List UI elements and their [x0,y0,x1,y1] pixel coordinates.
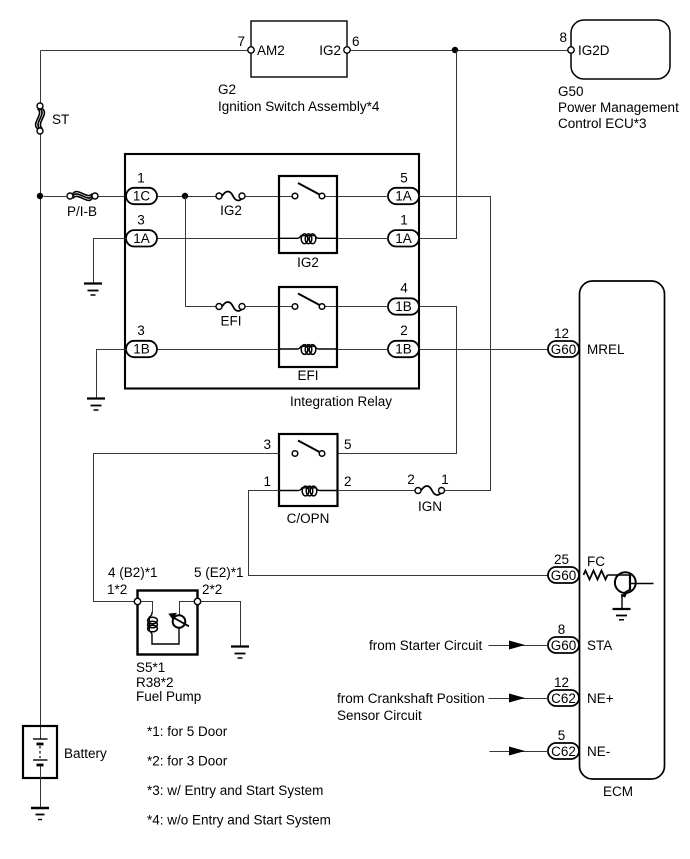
svg-text:S5*1: S5*1 [136,660,165,675]
connector G60 pin 8 STA [548,622,612,653]
connector G60 pin 12 MREL [548,326,625,357]
connector 1A pin 3 left [126,213,157,247]
wire 1B4 down to C/OPN pin5 [338,307,457,454]
svg-text:1B: 1B [133,342,150,357]
ground under 1B3 [87,399,105,411]
svg-text:G2: G2 [218,82,236,97]
wire 1C to IG2 fuse [158,196,217,198]
relay EFI [279,287,337,383]
wire EFI fuse to relay switch [246,306,293,308]
wire from starter circuit arrow [369,638,549,653]
svg-text:1A: 1A [133,231,150,246]
wire 1A3 to ground [94,239,127,284]
svg-text:IG2: IG2 [297,255,319,270]
svg-text:*4: w/o Entry and Start System: *4: w/o Entry and Start System [147,813,331,828]
svg-text:EFI: EFI [220,314,241,329]
svg-text:*3: w/ Entry and Start System: *3: w/ Entry and Start System [147,783,323,798]
fusible link ST [36,103,70,134]
connector 1B pin 3 left [126,323,157,357]
svg-text:1: 1 [441,472,449,487]
svg-text:1: 1 [400,213,408,228]
svg-text:1B: 1B [395,299,412,314]
connector C62 pin 12 NE+ [548,675,614,706]
ground under 1A3 [84,284,102,296]
svg-text:G60: G60 [551,568,577,583]
fuse IG2 [216,192,245,219]
battery [23,726,107,808]
svg-text:3: 3 [137,213,145,228]
svg-text:12: 12 [554,675,569,690]
svg-text:IG2: IG2 [319,43,341,58]
svg-text:Power Management: Power Management [558,100,679,115]
svg-text:8: 8 [559,30,567,45]
svg-text:Control ECU*3: Control ECU*3 [558,116,647,131]
notes [147,724,331,828]
connector 1B pin 2 right [388,323,419,357]
wire IG2 coil to 1A1 [338,238,389,240]
wire EFI coil to 1B2 [338,349,389,351]
svg-text:2: 2 [400,323,408,338]
wire left rail down to ST [40,51,42,104]
wire relay IG2 switch to 1A5 [326,196,389,198]
wire IG2 to IG2D [348,50,572,52]
svg-text:4 (B2)*1: 4 (B2)*1 [108,565,158,580]
ground under transistor [613,609,631,620]
svg-text:Integration Relay: Integration Relay [290,394,392,409]
relay C/OPN [263,434,351,526]
svg-text:6: 6 [352,34,360,49]
wire 1A1 up to top rail junction [420,51,457,239]
wire IG2 fuse to relay switch [246,196,293,198]
wire 1B3 to EFI coil [158,349,280,351]
svg-text:2*2: 2*2 [202,582,222,597]
svg-text:STA: STA [587,638,612,653]
svg-text:3: 3 [263,437,271,452]
svg-text:FC: FC [587,554,605,569]
wire top rail from battery column to AM2 [41,50,252,52]
ground under fuel pump [231,647,249,659]
svg-text:8: 8 [558,622,566,637]
svg-text:5: 5 [400,170,408,185]
resistor FC [584,571,608,580]
svg-text:3: 3 [137,323,145,338]
connector G60 pin 25 FC [548,552,605,583]
svg-text:NE-: NE- [587,744,610,759]
svg-text:Sensor Circuit: Sensor Circuit [337,708,422,723]
svg-text:from Starter Circuit: from Starter Circuit [369,638,483,653]
svg-text:1: 1 [263,474,271,489]
fuse EFI [216,302,245,329]
ignition switch assembly G2 [218,21,380,114]
svg-text:Battery: Battery [64,746,107,761]
wire relay EFI switch to 1B4 [326,306,389,308]
svg-text:C/OPN: C/OPN [287,511,330,526]
ECM box [580,281,665,799]
connector C62 pin 5 NE- [548,728,610,759]
wire FC resistor to transistor base [608,574,631,576]
svg-text:G60: G60 [551,342,577,357]
svg-text:ST: ST [52,112,69,127]
svg-text:1B: 1B [395,342,412,357]
svg-text:AM2: AM2 [257,43,285,58]
svg-text:from Crankshaft Position: from Crankshaft Position [337,691,485,706]
svg-text:1A: 1A [395,231,412,246]
svg-text:25: 25 [554,552,569,567]
svg-text:12: 12 [554,326,569,341]
wire 1B3 to ground [97,350,127,399]
svg-text:2: 2 [407,472,415,487]
wire 1A5 right down to IGN fuse [420,197,491,491]
svg-text:5 (E2)*1: 5 (E2)*1 [194,565,244,580]
svg-text:ECM: ECM [603,784,633,799]
svg-text:C62: C62 [551,691,576,706]
svg-text:P/I-B: P/I-B [67,204,97,219]
svg-text:*2: for 3 Door: *2: for 3 Door [147,754,228,769]
wire branch down to EFI fuse [186,197,217,307]
connector 1B pin 4 right [388,281,419,315]
svg-text:IGN: IGN [418,499,442,514]
svg-text:1A: 1A [395,189,412,204]
svg-text:EFI: EFI [297,368,318,383]
svg-text:1C: 1C [133,189,151,204]
ground under battery [31,808,49,820]
svg-text:1*2: 1*2 [107,582,127,597]
arrow NE- [490,747,549,756]
svg-text:1: 1 [137,170,145,185]
wire fuel pump E2 to ground [201,602,241,647]
ECU G50 IG2D [558,20,679,131]
node junction on top rail [452,47,458,53]
svg-text:4: 4 [400,281,408,296]
fuel pump [107,565,244,704]
transistor Q (NPN) [615,572,654,608]
wire from crankshaft position sensor arrow [337,691,549,723]
svg-text:C62: C62 [551,744,576,759]
svg-text:IG2D: IG2D [578,43,610,58]
svg-text:G50: G50 [558,84,584,99]
wire 1B2 to ECM MREL [420,349,549,351]
node junction left rail to P/I-B [37,193,43,199]
wire C/OPN pin2 to IGN fuse [338,490,416,492]
connector 1A pin 1 right [388,213,419,247]
svg-text:NE+: NE+ [587,691,614,706]
svg-text:7: 7 [237,34,245,49]
svg-text:Ignition Switch Assembly*4: Ignition Switch Assembly*4 [218,99,380,114]
wire C/OPN pin3 to fuel pump [94,454,280,602]
connector 1C pin 1 [126,170,157,204]
svg-text:R38*2: R38*2 [136,675,174,690]
node junction at 1C branch [182,193,188,199]
svg-text:*1: for 5 Door: *1: for 5 Door [147,724,228,739]
svg-text:2: 2 [344,474,352,489]
svg-text:5: 5 [558,728,566,743]
wire ST to battery [40,135,42,740]
fuse IGN [407,472,449,514]
svg-text:Fuel Pump: Fuel Pump [136,689,201,704]
integration relay box [125,154,419,409]
svg-text:IG2: IG2 [220,203,242,218]
wire 1A3 to IG2 coil [158,238,280,240]
svg-text:MREL: MREL [587,342,625,357]
relay IG2 [279,176,337,270]
fusible link P/I-B [44,192,127,219]
wire C/OPN pin1 to ECM FC [249,491,549,576]
connector 1A pin 5 right [388,170,419,204]
svg-text:G60: G60 [551,638,577,653]
svg-text:5: 5 [344,437,352,452]
